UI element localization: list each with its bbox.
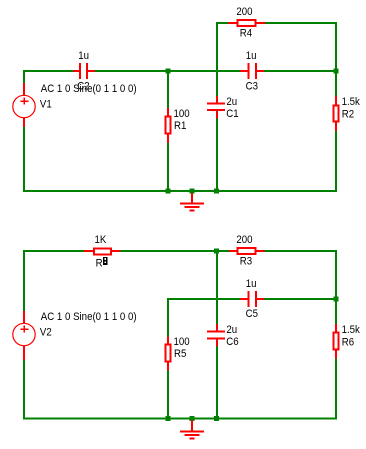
node junction ground top — [190, 189, 195, 194]
wire top main middle — [95, 70, 240, 72]
capacitor C1 — [207, 96, 225, 119]
capacitor C6 — [207, 324, 225, 347]
ground bottom circuit — [180, 421, 204, 440]
node junction R3 left — [214, 249, 219, 254]
svg-text:V2: V2 — [40, 327, 52, 339]
svg-text:100: 100 — [174, 337, 190, 349]
svg-text:R6: R6 — [342, 337, 355, 349]
label R7 (overstruck designator) — [96, 257, 108, 270]
wire right rail bottom circuit lower — [335, 359, 337, 419]
resistor R4 — [228, 19, 265, 27]
wire right rail lower — [335, 131, 337, 192]
svg-text:200: 200 — [236, 234, 252, 246]
node junction C5 right — [334, 297, 339, 302]
wire right rail bottom circuit upper — [335, 250, 337, 324]
wire C5 rail left — [167, 298, 240, 300]
capacitor C2 — [73, 63, 95, 79]
wire R4 top left stub — [216, 22, 228, 24]
wire left rail lower — [23, 127, 25, 192]
wire left rail upper — [23, 70, 25, 83]
ground top circuit — [180, 193, 204, 212]
wire R4 top right — [265, 22, 337, 24]
wire R5 branch upper — [167, 299, 169, 337]
svg-text:R2: R2 — [342, 109, 355, 121]
wire top main left (node in, y=71) — [23, 70, 73, 72]
resistor R6 — [333, 324, 340, 359]
wire C5 rail right — [264, 298, 337, 300]
wire top rail bottom circuit left — [23, 250, 84, 252]
svg-text:C6: C6 — [226, 336, 239, 348]
svg-text:1u: 1u — [246, 50, 257, 62]
svg-text:2u: 2u — [226, 96, 237, 108]
svg-text:C1: C1 — [226, 108, 239, 120]
svg-text:V1: V1 — [40, 99, 52, 111]
wire top rail bottom circuit middle — [121, 250, 230, 252]
resistor R5 — [165, 337, 172, 371]
voltage source V2 — [13, 311, 35, 360]
svg-text:1K: 1K — [95, 234, 107, 246]
wire top main right — [264, 70, 337, 72]
resistor R2 — [333, 96, 340, 131]
wire C6 branch upper — [216, 252, 218, 324]
wire R1 branch lower — [167, 143, 169, 191]
svg-text:R1: R1 — [174, 121, 187, 133]
wire right rail upper — [335, 22, 337, 96]
wire top rail bottom circuit right — [265, 250, 338, 252]
resistor R3 — [229, 247, 265, 255]
wire bottom rail top circuit — [23, 190, 337, 192]
svg-text:1.5k: 1.5k — [342, 96, 361, 108]
wire R1 branch upper — [167, 72, 169, 108]
wire R4 branch vertical — [216, 22, 218, 96]
capacitor C5 — [240, 291, 264, 307]
wire left rail bottom circuit upper — [23, 250, 25, 311]
svg-text:AC 1 0 Sine(0 1 1 0 0): AC 1 0 Sine(0 1 1 0 0) — [41, 84, 137, 96]
voltage source V1 — [13, 83, 35, 127]
wire bottom rail bottom circuit — [23, 418, 337, 420]
svg-text:100: 100 — [174, 109, 190, 121]
node junction R1 top — [166, 69, 171, 74]
node junction R5 bottom — [166, 416, 171, 421]
svg-text:1.5k: 1.5k — [342, 324, 361, 336]
svg-text:C3: C3 — [246, 81, 259, 93]
node junction right rail top — [334, 69, 339, 74]
svg-text:200: 200 — [236, 6, 252, 18]
wire R5 branch lower — [167, 371, 169, 419]
capacitor C3 — [240, 63, 264, 79]
resistor R7 — [84, 248, 121, 256]
svg-text:1u: 1u — [246, 278, 257, 290]
svg-text:C5: C5 — [246, 309, 259, 321]
wire C6 branch lower — [216, 347, 218, 418]
svg-text:R4: R4 — [240, 28, 253, 40]
resistor R1 — [165, 108, 172, 143]
svg-text:R5: R5 — [174, 349, 187, 361]
node junction ground bottom — [190, 416, 195, 421]
svg-text:AC 1 0 Sine(0 1 1 0 0): AC 1 0 Sine(0 1 1 0 0) — [41, 312, 137, 324]
node junction C1 bottom — [214, 189, 219, 194]
svg-text:R: R — [96, 258, 103, 270]
wire C1 bottom — [216, 119, 218, 192]
node junction C6 bottom — [214, 416, 219, 421]
svg-text:1u: 1u — [78, 50, 89, 62]
node junction R1 bottom — [166, 189, 171, 194]
wire left rail bottom circuit lower — [23, 360, 25, 419]
svg-text:2u: 2u — [226, 324, 237, 336]
svg-text:R3: R3 — [240, 256, 253, 268]
